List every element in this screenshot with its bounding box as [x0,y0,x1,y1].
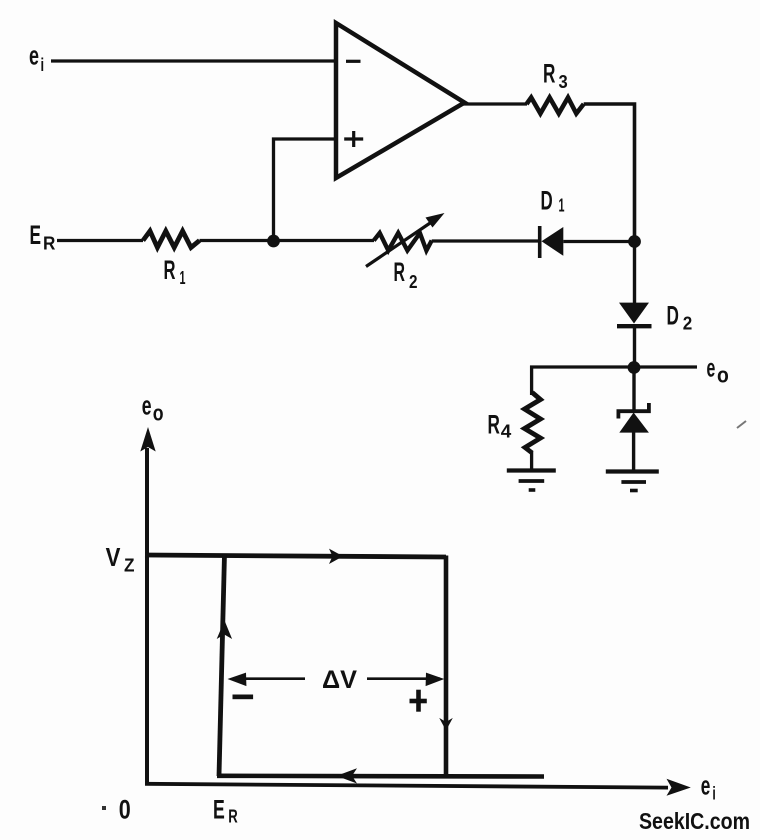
wire: R1 to node B [200,239,274,242]
label E_R (reference input) [30,220,56,254]
label e_i (x-axis) [701,771,716,804]
svg-text:e: e [29,41,39,71]
speck left of origin [102,806,106,810]
svg-text:2: 2 [683,314,693,334]
wire: node B up and right to op-amp + input [274,139,337,241]
svg-text:e: e [142,391,152,421]
wire: zener to ground [632,432,635,471]
hysteresis loop: bottom line [217,773,544,778]
ground (below zener) [606,472,659,491]
label E_R (x-axis threshold) [213,795,238,827]
wire: op-amp output to R3 [462,102,527,105]
svg-text:R: R [164,255,176,285]
hysteresis loop: top line (V_Z level) [145,555,446,557]
label V_Z [106,542,135,576]
ground (below R4) [507,471,556,491]
svg-text:R: R [488,409,500,439]
node B (junction to non-inverting input) [267,235,280,248]
wire: E_R to R1 [57,239,143,242]
arrow up on left vertical [217,621,232,640]
wire: e_i to op-amp inverting input [51,59,336,62]
svg-text:E: E [213,795,225,825]
wire: R2 to D1 [432,239,540,242]
svg-text:0: 0 [119,795,131,825]
wire: node C down to zener [632,368,635,412]
wire: node A down to D2 [633,242,636,304]
svg-text:2: 2 [409,272,418,292]
label e_i (input) [29,41,44,76]
label e_o (output) [707,352,729,387]
svg-text:e: e [707,352,716,382]
op-amp U1 [336,23,465,178]
svg-text:o: o [153,401,164,426]
svg-text:1: 1 [180,268,186,288]
svg-text:i: i [41,55,45,75]
delta-V annotation arrow [228,664,445,694]
svg-text:R: R [228,807,238,827]
svg-text:R: R [543,59,555,89]
resistor R1 [143,231,200,288]
wire: R4 to ground [530,452,533,470]
label e_o (y-axis) [142,391,164,426]
scan speck near zener [737,421,746,428]
svg-text:D: D [667,301,679,331]
svg-text:D: D [541,186,553,216]
zener diode (output clamp) [618,403,649,433]
label minus (left threshold) [233,695,254,700]
arrow down on right vertical [439,718,453,731]
resistor R3 [527,59,584,114]
svg-text:3: 3 [559,72,568,92]
svg-text:E: E [30,220,42,250]
svg-text:SeekIC.com: SeekIC.com [639,808,750,834]
svg-text:4: 4 [501,422,512,442]
wire: D1 to node A [563,240,634,243]
label plus (right threshold) [410,690,427,712]
wire: D2 to node C [633,326,636,368]
svg-text:e: e [701,771,711,801]
wire: node C left and down to R4 [532,367,634,395]
arrow right on top line [329,549,343,564]
svg-text:V: V [106,542,121,572]
svg-text:o: o [717,363,729,388]
svg-text:R: R [394,257,406,287]
wire: node B to R2 [274,239,375,242]
arrow left on bottom line [337,768,358,783]
svg-text:i: i [712,784,715,804]
svg-text:R: R [43,234,55,254]
hysteresis loop: right vertical [444,556,449,777]
resistor R4 [488,393,541,454]
wire: R3 to top of right rail, corner down to node A [584,104,635,242]
x-axis with arrowhead [145,779,691,796]
svg-text:1: 1 [559,195,565,215]
diode D2 [617,301,692,334]
wire: node C to e_o stub [634,365,697,368]
resistor R2 (variable) [366,213,445,292]
svg-text:Z: Z [124,555,135,576]
node A (feedback junction on right rail) [628,235,641,248]
hysteresis loop: left vertical [219,554,225,776]
svg-text:ΔV: ΔV [322,666,357,694]
node C (output junction) [628,361,641,374]
y-axis with arrowhead [140,427,155,785]
diode D1 [540,186,565,258]
